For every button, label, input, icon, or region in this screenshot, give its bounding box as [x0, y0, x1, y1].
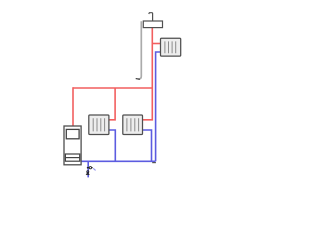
vent pipe [149, 13, 153, 21]
overflow pipe dark tip [136, 78, 140, 81]
wire: red riser from tank to radiator 2 [143, 28, 153, 120]
node: dark elbow at return riser foot [152, 162, 156, 164]
boiler [64, 126, 81, 165]
wire: blue drain stub [87, 161, 89, 177]
wire: red flow main horizontal [73, 87, 152, 89]
wire: red drop to boiler [72, 87, 74, 125]
boiler door [66, 129, 79, 138]
wire: red stub to top radiator [152, 43, 160, 45]
radiator top right [161, 38, 181, 56]
wire: red branch to radiator 1 [109, 88, 115, 120]
wire: blue branch from radiator 1 [109, 130, 115, 161]
wire: blue return main horizontal [81, 160, 155, 162]
radiator 2 (middle right) [123, 115, 143, 135]
wire: blue branch from radiator 2 [143, 130, 152, 161]
expansion tank [143, 21, 162, 28]
radiator 1 (middle left) [89, 115, 109, 135]
stop valve on drain stub [86, 171, 90, 175]
drain cock with hose [87, 167, 96, 171]
wire: blue riser from top radiator [156, 52, 161, 161]
overflow pipe [138, 21, 141, 79]
boiler grate [65, 154, 79, 161]
